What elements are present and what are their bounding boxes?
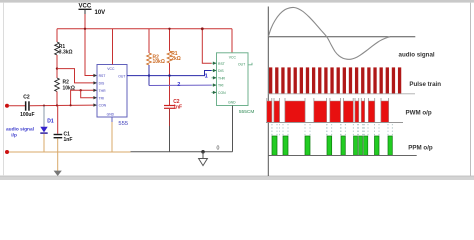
svg-text:3.3kΩ: 3.3kΩ bbox=[59, 49, 73, 55]
svg-text:1nF: 1nF bbox=[173, 105, 182, 111]
svg-text:Pulse train: Pulse train bbox=[409, 81, 441, 88]
svg-text:TRI: TRI bbox=[99, 96, 105, 100]
svg-text:VCC: VCC bbox=[229, 55, 237, 59]
svg-text:i/p: i/p bbox=[11, 133, 17, 139]
svg-text:OUT: OUT bbox=[238, 63, 245, 67]
svg-text:2kΩ: 2kΩ bbox=[171, 56, 181, 62]
svg-text:2: 2 bbox=[177, 82, 180, 88]
svg-text:100uF: 100uF bbox=[20, 112, 34, 118]
svg-text:555: 555 bbox=[118, 121, 128, 127]
svg-text:RST: RST bbox=[99, 74, 106, 78]
svg-text:THR: THR bbox=[218, 76, 226, 80]
svg-text:1nF: 1nF bbox=[64, 137, 73, 143]
svg-text:CON: CON bbox=[218, 91, 226, 95]
svg-text:audio signal: audio signal bbox=[6, 127, 34, 133]
svg-text:D1: D1 bbox=[47, 119, 54, 125]
svg-text:C2: C2 bbox=[23, 95, 30, 101]
svg-text:10kΩ: 10kΩ bbox=[153, 59, 165, 65]
svg-text:10V: 10V bbox=[95, 10, 106, 16]
svg-text:THR: THR bbox=[99, 89, 107, 93]
svg-text:1: 1 bbox=[205, 74, 208, 80]
svg-text:OUT: OUT bbox=[118, 74, 125, 78]
svg-text:RST: RST bbox=[218, 62, 225, 66]
svg-text:555CM: 555CM bbox=[239, 109, 254, 115]
svg-text:GND: GND bbox=[228, 101, 236, 105]
svg-text:PPM o/p: PPM o/p bbox=[408, 144, 433, 151]
svg-text:DIS: DIS bbox=[218, 69, 224, 73]
svg-text:0: 0 bbox=[217, 145, 220, 151]
svg-text:PWM o/p: PWM o/p bbox=[406, 110, 432, 117]
svg-text:VCC: VCC bbox=[107, 67, 115, 71]
svg-text:DIS: DIS bbox=[99, 82, 105, 86]
svg-text:CON: CON bbox=[99, 104, 107, 108]
svg-text:GND: GND bbox=[107, 112, 115, 116]
svg-text:VCC: VCC bbox=[79, 3, 92, 9]
svg-text:TRI: TRI bbox=[218, 84, 224, 88]
svg-text:audio signal: audio signal bbox=[399, 52, 435, 59]
